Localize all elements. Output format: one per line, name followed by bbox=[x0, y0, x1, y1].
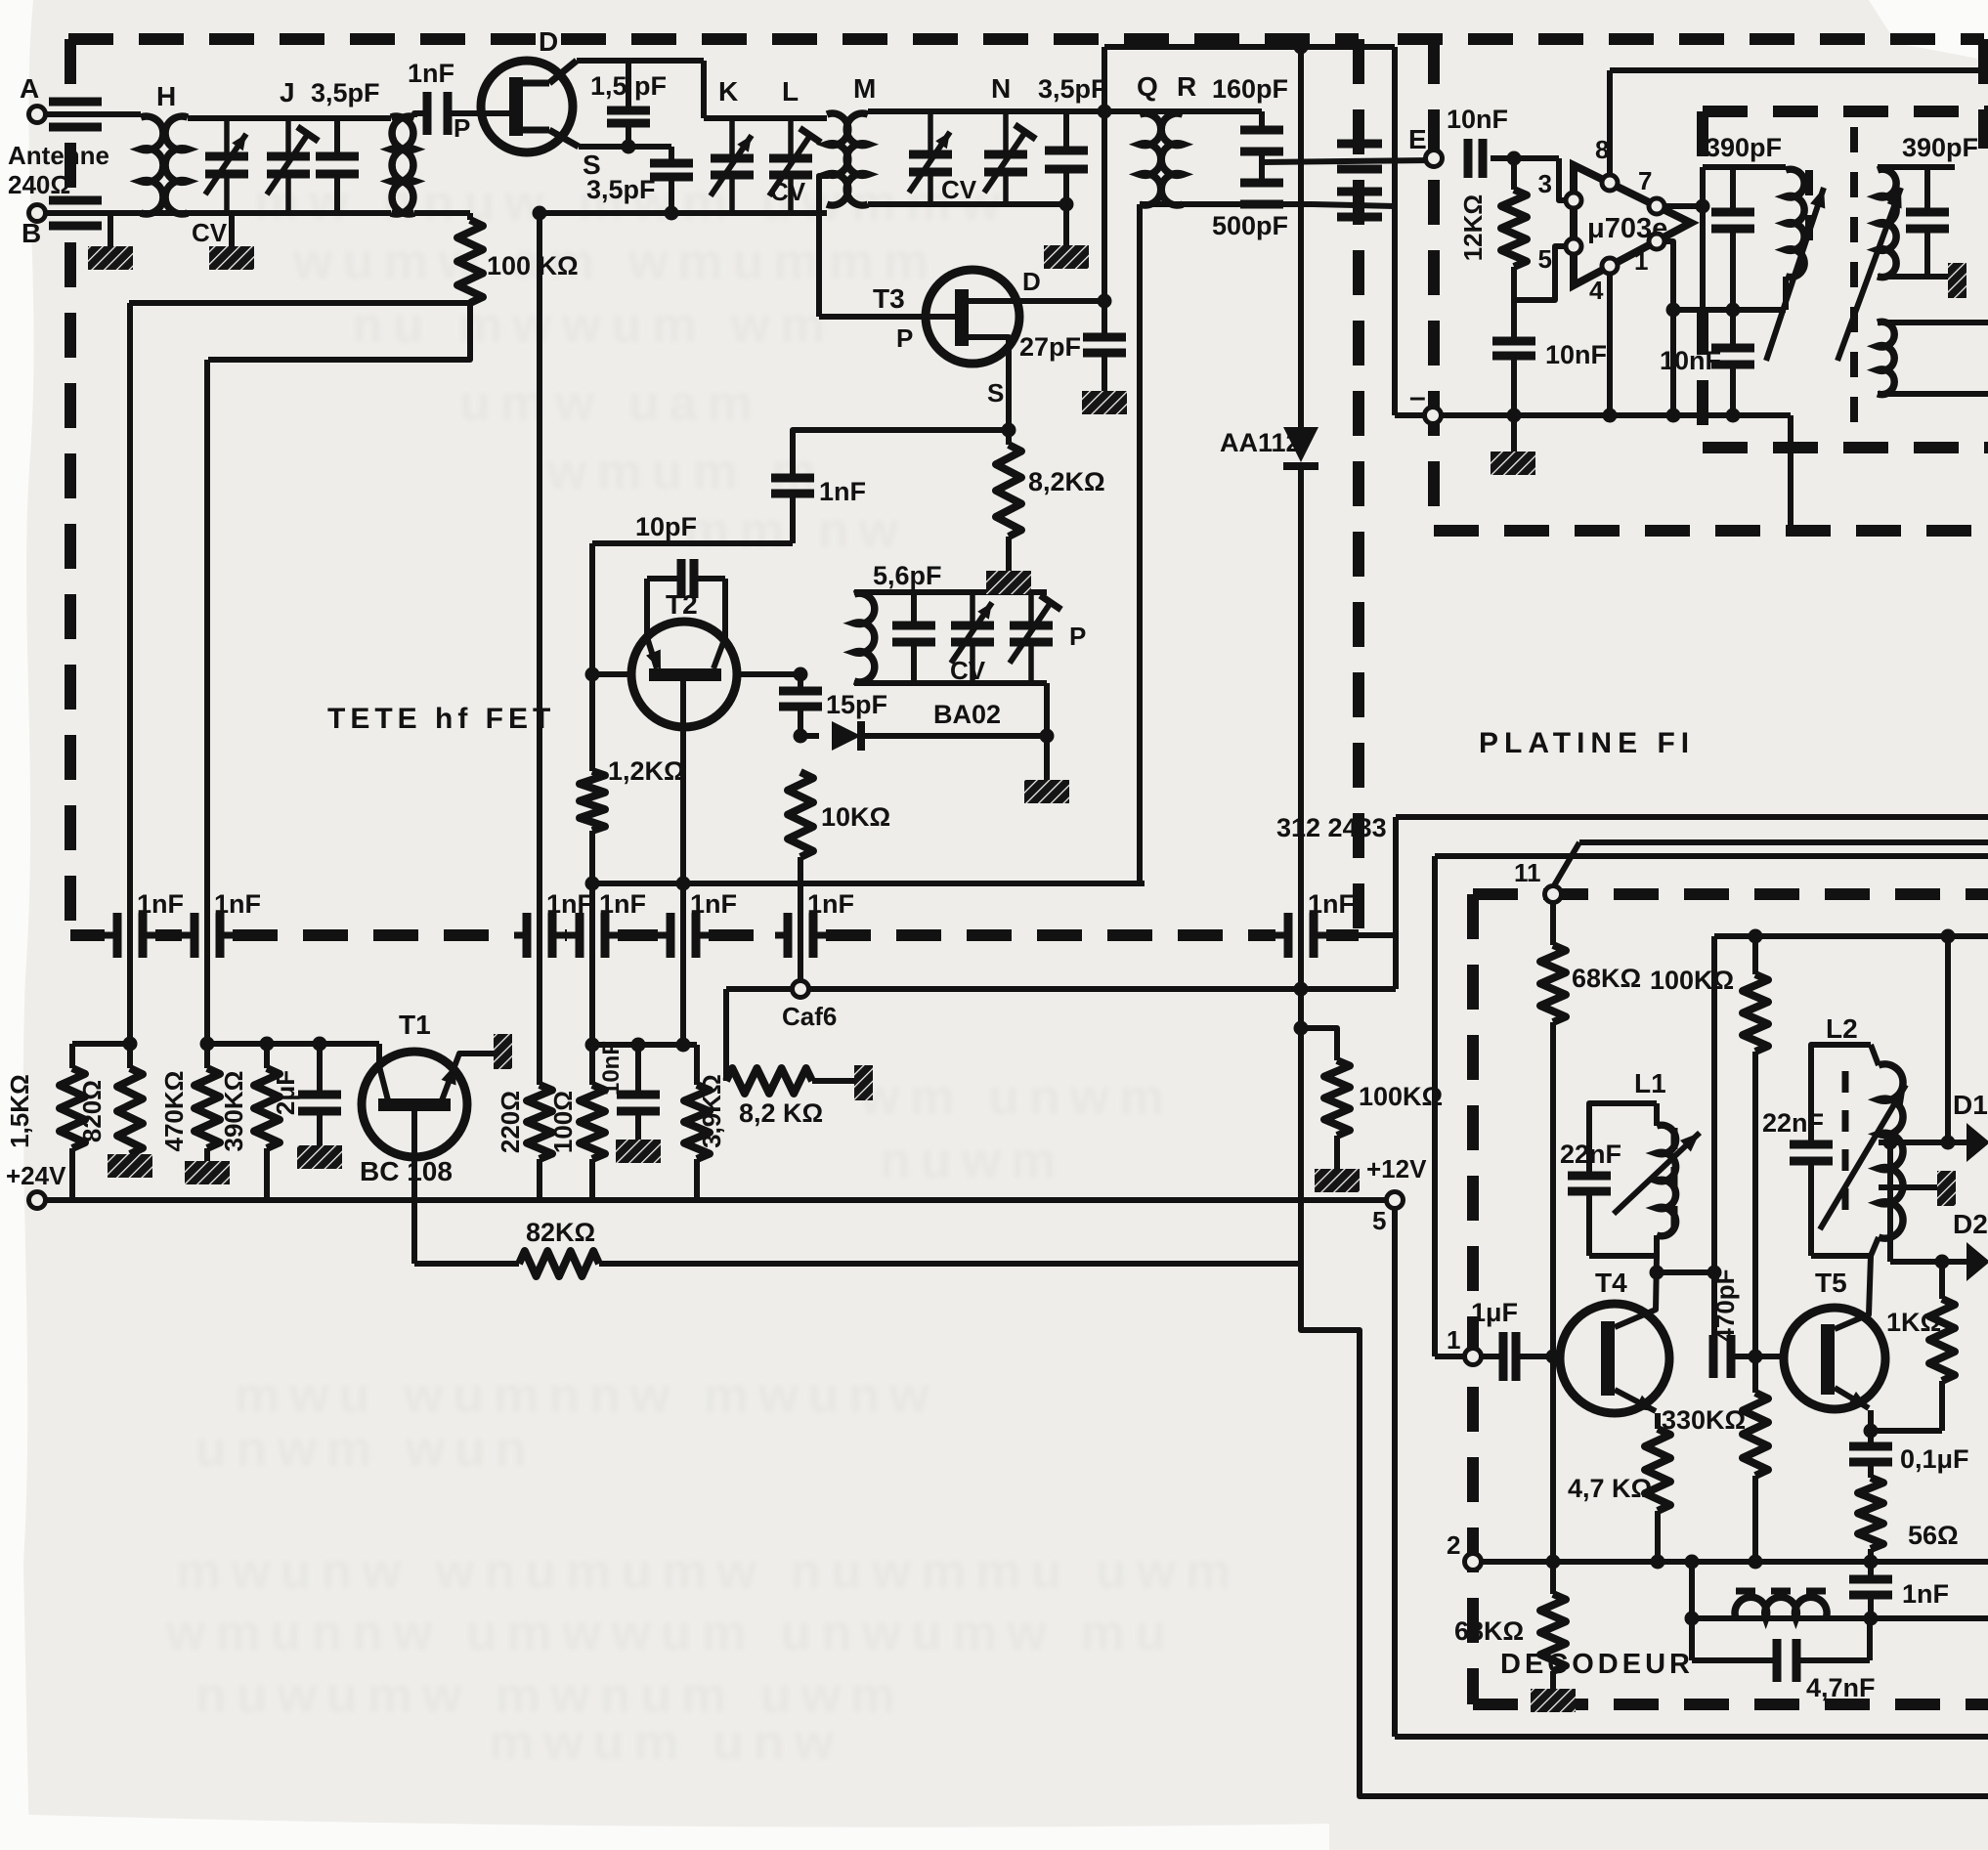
svg-text:mwum unw: mwum unw bbox=[489, 1714, 843, 1771]
svg-text:312 2433: 312 2433 bbox=[1276, 813, 1387, 842]
svg-text:unwm wun: unwm wun bbox=[195, 1421, 537, 1478]
svg-text:nuwm: nuwm bbox=[880, 1133, 1065, 1189]
svg-text:3,5pF: 3,5pF bbox=[311, 78, 380, 108]
svg-text:TETE hf FET: TETE hf FET bbox=[327, 703, 555, 735]
svg-text:11: 11 bbox=[1514, 858, 1541, 887]
svg-text:8,2KΩ: 8,2KΩ bbox=[1028, 467, 1105, 496]
svg-text:10nF: 10nF bbox=[1545, 340, 1607, 369]
svg-text:N: N bbox=[991, 73, 1011, 104]
svg-text:T3: T3 bbox=[873, 283, 905, 314]
svg-text:D: D bbox=[1022, 267, 1041, 296]
svg-text:B: B bbox=[22, 218, 41, 248]
svg-text:H: H bbox=[156, 81, 176, 111]
svg-text:T5: T5 bbox=[1815, 1268, 1847, 1298]
svg-text:1,5KΩ: 1,5KΩ bbox=[5, 1074, 34, 1148]
svg-text:10KΩ: 10KΩ bbox=[821, 802, 890, 832]
svg-text:1nF: 1nF bbox=[1308, 889, 1355, 919]
svg-text:J: J bbox=[280, 77, 295, 108]
svg-text:10nF: 10nF bbox=[1660, 346, 1721, 375]
svg-text:4,7nF: 4,7nF bbox=[1806, 1673, 1876, 1702]
svg-text:500pF: 500pF bbox=[1212, 211, 1288, 240]
svg-text:1nF: 1nF bbox=[1902, 1579, 1949, 1609]
svg-text:820Ω: 820Ω bbox=[77, 1080, 107, 1142]
svg-text:Q: Q bbox=[1137, 71, 1158, 102]
svg-text:100KΩ: 100KΩ bbox=[1359, 1082, 1443, 1111]
svg-text:mwu wumnnw mwunw: mwu wumnnw mwunw bbox=[235, 1367, 938, 1424]
svg-text:CV: CV bbox=[941, 175, 977, 204]
svg-text:wumw am wmummm: wumw am wmummm bbox=[292, 234, 938, 290]
svg-text:220Ω: 220Ω bbox=[496, 1091, 525, 1153]
svg-text:mm nw: mm nw bbox=[684, 502, 908, 559]
svg-text:100Ω: 100Ω bbox=[548, 1091, 578, 1153]
svg-text:D: D bbox=[539, 26, 558, 57]
svg-text:1KΩ: 1KΩ bbox=[1886, 1308, 1941, 1337]
svg-text:A: A bbox=[20, 73, 39, 104]
svg-text:4,7 KΩ: 4,7 KΩ bbox=[1568, 1474, 1652, 1503]
svg-text:umw uam: umw uam bbox=[459, 375, 762, 432]
svg-text:12KΩ: 12KΩ bbox=[1458, 194, 1488, 262]
svg-text:1nF: 1nF bbox=[599, 889, 646, 919]
svg-text:1: 1 bbox=[1634, 246, 1648, 276]
svg-text:27pF: 27pF bbox=[1019, 332, 1081, 362]
svg-text:wm unwm: wm unwm bbox=[859, 1069, 1174, 1126]
svg-text:8,2 KΩ: 8,2 KΩ bbox=[739, 1098, 823, 1128]
svg-text:10pF: 10pF bbox=[635, 512, 697, 541]
svg-text:1nF: 1nF bbox=[690, 889, 737, 919]
svg-text:T4: T4 bbox=[1595, 1268, 1627, 1298]
svg-text:S: S bbox=[987, 378, 1004, 408]
svg-text:7: 7 bbox=[1638, 166, 1652, 195]
svg-text:330KΩ: 330KΩ bbox=[1662, 1405, 1746, 1435]
svg-text:8: 8 bbox=[1595, 135, 1609, 164]
svg-text:160pF: 160pF bbox=[1212, 74, 1288, 104]
svg-text:1: 1 bbox=[1447, 1325, 1460, 1355]
svg-text:1nF: 1nF bbox=[137, 889, 184, 919]
svg-text:T1: T1 bbox=[399, 1010, 431, 1040]
svg-text:D2: D2 bbox=[1953, 1209, 1988, 1239]
svg-text:100 KΩ: 100 KΩ bbox=[487, 251, 579, 280]
svg-text:Caf6: Caf6 bbox=[782, 1002, 837, 1031]
svg-text:P: P bbox=[1069, 622, 1086, 651]
svg-text:+24V: +24V bbox=[6, 1161, 66, 1190]
svg-text:240Ω: 240Ω bbox=[8, 170, 70, 199]
svg-text:5: 5 bbox=[1372, 1206, 1386, 1235]
svg-text:D1: D1 bbox=[1953, 1090, 1988, 1120]
svg-text:mwunw wnumumw nuwmmu uwm: mwunw wnumumw nuwmmu uwm bbox=[176, 1543, 1240, 1600]
svg-text:1nF: 1nF bbox=[546, 889, 593, 919]
svg-text:68KΩ: 68KΩ bbox=[1572, 964, 1641, 993]
svg-text:E: E bbox=[1408, 124, 1427, 154]
svg-text:1,5 pF: 1,5 pF bbox=[590, 71, 667, 101]
svg-text:AA112: AA112 bbox=[1220, 428, 1301, 457]
svg-text:BA02: BA02 bbox=[933, 700, 1001, 729]
svg-text:5,6pF: 5,6pF bbox=[873, 561, 942, 590]
svg-text:1nF: 1nF bbox=[807, 889, 854, 919]
svg-text:56Ω: 56Ω bbox=[1908, 1521, 1959, 1550]
svg-text:K: K bbox=[718, 76, 738, 107]
svg-text:L2: L2 bbox=[1826, 1013, 1858, 1044]
svg-text:470KΩ: 470KΩ bbox=[159, 1070, 189, 1151]
svg-text:Antenne: Antenne bbox=[8, 141, 109, 170]
svg-text:100KΩ: 100KΩ bbox=[1650, 966, 1734, 995]
svg-text:15pF: 15pF bbox=[826, 690, 887, 719]
svg-text:3,5pF: 3,5pF bbox=[586, 175, 656, 204]
svg-text:P: P bbox=[454, 113, 470, 143]
svg-text:R: R bbox=[1177, 71, 1196, 102]
svg-text:1nF: 1nF bbox=[214, 889, 261, 919]
svg-text:1nF: 1nF bbox=[819, 477, 866, 506]
svg-text:BC 108: BC 108 bbox=[360, 1156, 453, 1186]
svg-text:5: 5 bbox=[1538, 244, 1552, 274]
svg-text:3,5pF: 3,5pF bbox=[1038, 74, 1107, 104]
svg-text:0,1μF: 0,1μF bbox=[1900, 1444, 1969, 1474]
svg-text:–: – bbox=[1409, 381, 1426, 413]
svg-text:CV: CV bbox=[950, 656, 986, 685]
svg-text:PLATINE FI: PLATINE FI bbox=[1479, 727, 1695, 759]
svg-text:DECODEUR: DECODEUR bbox=[1500, 1649, 1694, 1680]
svg-text:390pF: 390pF bbox=[1706, 133, 1782, 162]
svg-text:3,9KΩ: 3,9KΩ bbox=[697, 1074, 726, 1148]
svg-text:L1: L1 bbox=[1634, 1068, 1666, 1098]
svg-text:10nF: 10nF bbox=[1447, 105, 1508, 134]
svg-text:CV: CV bbox=[192, 218, 228, 247]
svg-text:1μF: 1μF bbox=[1471, 1298, 1518, 1327]
svg-text:L: L bbox=[782, 76, 799, 107]
svg-text:10nF: 10nF bbox=[598, 1041, 625, 1096]
svg-text:82KΩ: 82KΩ bbox=[526, 1218, 595, 1247]
svg-text:3: 3 bbox=[1538, 169, 1552, 198]
svg-text:390pF: 390pF bbox=[1902, 133, 1978, 162]
svg-text:470pF: 470pF bbox=[1710, 1269, 1740, 1342]
svg-text:2: 2 bbox=[1447, 1530, 1460, 1560]
svg-text:68KΩ: 68KΩ bbox=[1454, 1616, 1524, 1646]
svg-text:2μF: 2μF bbox=[271, 1070, 300, 1115]
svg-text:P: P bbox=[896, 323, 913, 353]
svg-text:4: 4 bbox=[1589, 276, 1604, 305]
svg-text:22nF: 22nF bbox=[1560, 1140, 1621, 1169]
svg-text:+12V: +12V bbox=[1366, 1154, 1427, 1183]
svg-text:22nF: 22nF bbox=[1762, 1108, 1824, 1138]
svg-text:1,2KΩ: 1,2KΩ bbox=[608, 756, 685, 786]
svg-text:CV: CV bbox=[770, 177, 806, 206]
svg-text:M: M bbox=[853, 73, 876, 104]
svg-text:1nF: 1nF bbox=[408, 59, 454, 88]
svg-text:wmunnw umwwum unwumw mu: wmunnw umwwum unwumw mu bbox=[165, 1605, 1176, 1661]
svg-text:390KΩ: 390KΩ bbox=[219, 1070, 248, 1151]
